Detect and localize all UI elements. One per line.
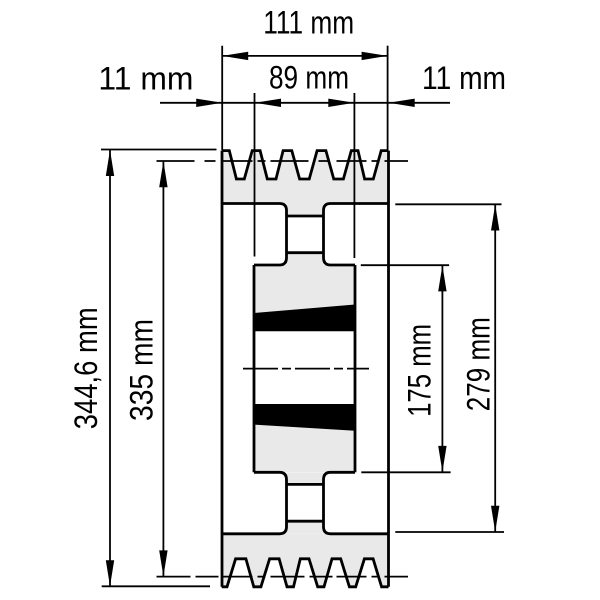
arrowhead 335 bottom [159,550,167,576]
pitch line bottom (dash-dot) [157,576,409,578]
dimension line 335 [162,161,164,576]
rim inner edge right + top neck right wall [324,204,389,266]
top groove profile [222,151,389,179]
bottom neck right wall + rim top edge right [324,472,389,534]
dimension line 279 [494,205,496,532]
arrowhead 111 left [222,52,248,60]
arrowhead 11 left pointing right [196,99,222,107]
right outer edge [387,151,390,587]
hub centerline (dash-dot) [243,368,369,370]
arrowhead 344,6 top [106,150,114,176]
arrowhead 279 bottom [491,506,499,532]
extension line groove span left [254,93,256,257]
top web window lower line [287,251,324,254]
dimension line 344,6 [109,150,111,586]
bottom neck left wall + rim top edge left [222,472,287,534]
dimension line 175 [441,265,443,472]
svg-text:175 mm: 175 mm [402,324,438,417]
arrowhead 111 right [362,52,388,60]
bottom rim fill [222,534,389,587]
extension line 175 bottom [361,471,450,473]
arrowhead 89 left [255,99,281,107]
arrowhead 175 top [438,265,446,291]
extension line 279 top [395,203,501,205]
svg-text:279 mm: 279 mm [461,317,497,411]
extension line 175 top [361,264,449,266]
bottom web gray lower [287,521,324,534]
svg-text:344,6 mm: 344,6 mm [68,307,104,429]
svg-text:111 mm: 111 mm [263,4,354,40]
arrowhead 335 top [159,161,167,187]
arrowhead 11 right pointing left [389,99,415,107]
arrowhead 279 top [491,205,499,231]
extension line right rim edge above part [387,46,389,150]
top rim fill [222,151,389,204]
neck lower gray [287,253,324,265]
svg-text:11 mm: 11 mm [422,60,506,96]
bottom web window lower line [287,520,324,523]
bottom groove profile [222,559,389,587]
top web gray [287,204,324,217]
extension line 344,6 top [101,149,217,151]
hub left edge [253,265,256,472]
bottom web gray upper [287,472,324,484]
rim inner edge left + top neck left wall [222,204,287,266]
taper bush wedge lower (black) [254,404,355,431]
bottom web window upper line [287,483,324,486]
left outer edge [221,151,224,587]
bore white band [254,331,355,404]
taper bush wedge upper (black) [254,305,355,332]
dimension shaft 11/89/11 [160,102,450,104]
extension line groove span right [353,93,355,258]
pitch line top (dash-dot) [157,160,409,162]
extension line 344,6 bottom [102,585,210,587]
arrowhead 175 bottom [438,446,446,472]
dimension line 111 mm [222,55,387,57]
extension line 279 bottom [395,531,504,533]
svg-text:335 mm: 335 mm [124,319,160,421]
top web window upper line [287,215,324,218]
arrowhead 89 right [328,99,354,107]
arrowhead 344,6 bottom [106,560,114,586]
svg-text:89 mm: 89 mm [269,60,349,96]
extension line left rim edge above part [221,46,223,150]
hub right edge [354,265,357,472]
hub fill [254,265,355,472]
svg-text:11 mm: 11 mm [98,60,193,96]
